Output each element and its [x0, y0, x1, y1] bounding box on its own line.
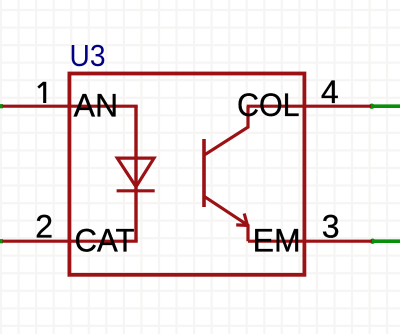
svg-text:U3: U3: [70, 38, 106, 73]
LED diode D (cathode bar): [117, 189, 155, 192]
wire junction (pin 3): [370, 239, 375, 244]
transistor Q (emitter arrowhead): [236, 214, 247, 226]
wire junction (pin 4): [369, 104, 374, 109]
LED diode D (vertical lead through symbol): [134, 106, 137, 241]
wire (green net stub, pin 1 left edge): [0, 104, 3, 108]
wire (green net stub, pin 2 left edge): [0, 239, 3, 243]
pin 2 (CAT) wire and cathode lead: [2, 240, 137, 243]
svg-text:COL: COL: [237, 87, 300, 123]
svg-text:CAT: CAT: [75, 223, 135, 259]
wire (green net, pin 3 right): [372, 239, 400, 243]
pin number 1: [38, 82, 45, 103]
wire (green net, pin 4 right): [371, 104, 400, 108]
pin 1 (AN) wire and anode lead: [2, 105, 137, 108]
svg-text:AN: AN: [74, 88, 118, 124]
transistor Q (emitter: diagonal and vertical to pin 3): [205, 197, 248, 241]
svg-text:4: 4: [321, 74, 339, 110]
transistor Q (base bar): [202, 139, 206, 207]
optocoupler U3 body outline: [69, 74, 304, 275]
pin 3 (EM) wire: [248, 240, 372, 243]
svg-text:3: 3: [322, 209, 340, 245]
svg-text:EM: EM: [253, 223, 301, 259]
LED diode D (anode triangle): [117, 158, 154, 187]
transistor Q (collector: diagonal and vertical to pin 4): [205, 106, 248, 155]
pin 4 (COL) wire: [247, 105, 371, 108]
svg-text:2: 2: [35, 209, 53, 245]
